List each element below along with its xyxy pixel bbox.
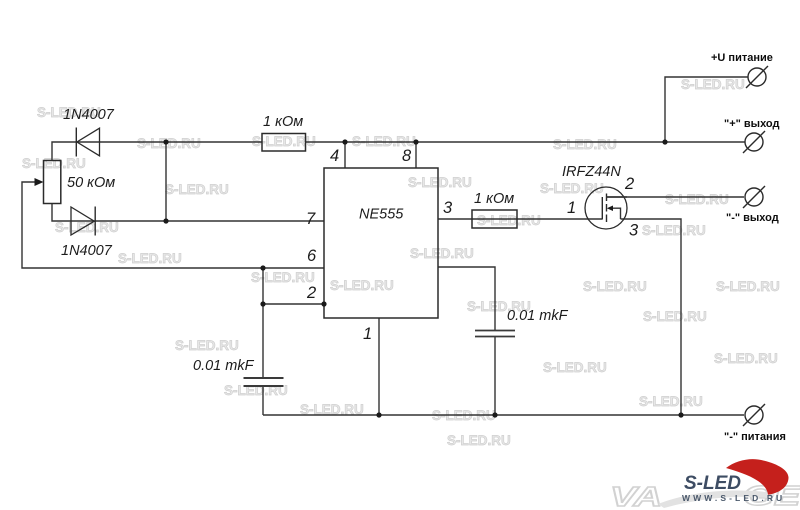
svg-text:50 кОм: 50 кОм — [67, 175, 115, 191]
svg-text:S-LED.RU: S-LED.RU — [118, 251, 182, 266]
svg-text:S-LED.RU: S-LED.RU — [714, 351, 778, 366]
svg-text:3: 3 — [629, 222, 639, 240]
wire: pin 3 to gate of Q1 — [438, 218, 602, 220]
terminal +U supply — [746, 66, 768, 88]
svg-text:1: 1 — [363, 325, 372, 343]
big GE background watermark letters — [743, 481, 800, 510]
node dot pin4 — [342, 139, 347, 144]
logo red swoosh — [726, 459, 789, 495]
svg-text:S-LED.RU: S-LED.RU — [55, 220, 119, 235]
wire: C1 bottom lead — [262, 387, 264, 416]
wire: vertical link between diode branches at x=166 — [165, 142, 167, 221]
node dot pin2 left — [260, 301, 265, 306]
big VA background watermark letters — [610, 482, 662, 510]
wire: source of Q1 right and down to rail — [621, 219, 682, 415]
svg-text:S-LED.RU: S-LED.RU — [137, 136, 201, 151]
svg-text:S-LED.RU: S-LED.RU — [175, 338, 239, 353]
capacitor C1 0.01 mkF — [244, 378, 284, 386]
svg-text:1: 1 — [567, 199, 576, 217]
svg-text:1 кОм: 1 кОм — [263, 114, 303, 130]
svg-text:S-LED.RU: S-LED.RU — [165, 182, 229, 197]
svg-text:S-LED.RU: S-LED.RU — [642, 223, 706, 238]
wire: pin 5 over and down to C2 — [438, 267, 495, 330]
diode D2 1N4007 (bottom, pointing right) — [71, 207, 95, 236]
svg-text:VA: VA — [610, 482, 662, 510]
svg-text:6: 6 — [307, 247, 317, 265]
svg-text:3: 3 — [443, 199, 453, 217]
svg-text:"+" выход: "+" выход — [724, 118, 779, 130]
svg-text:"-" питания: "-" питания — [724, 431, 786, 443]
svg-text:4: 4 — [330, 147, 339, 165]
terminal "-" supply — [743, 404, 765, 426]
wire: bottom ground rail — [263, 414, 744, 416]
svg-text:8: 8 — [402, 147, 412, 165]
wire: drain of Q1 to "-" output terminal — [606, 196, 744, 198]
svg-text:S-LED.RU: S-LED.RU — [553, 137, 617, 152]
svg-text:1 кОм: 1 кОм — [474, 191, 514, 207]
svg-text:S-LED.RU: S-LED.RU — [716, 279, 780, 294]
terminal "-" output — [743, 186, 765, 208]
node dot pin6 — [260, 265, 265, 270]
wire: pot wiper arm going left and down to pin 6 row — [22, 182, 324, 268]
svg-text:2: 2 — [306, 284, 316, 302]
node dot bottom x=166 — [163, 218, 168, 223]
resistor R1 1k (top) — [262, 134, 306, 152]
node dot +U branch — [662, 139, 667, 144]
wire: pin 2 stub — [263, 303, 324, 305]
svg-text:1N4007: 1N4007 — [63, 107, 115, 123]
node dot rail C2 — [492, 412, 497, 417]
svg-text:S-LED.RU: S-LED.RU — [251, 270, 315, 285]
svg-text:7: 7 — [306, 210, 316, 228]
svg-text:NE555: NE555 — [359, 207, 404, 223]
svg-text:"-" выход: "-" выход — [726, 212, 779, 224]
svg-text:WWW.S-LED.RU: WWW.S-LED.RU — [682, 493, 785, 503]
terminal "+" output — [743, 131, 765, 153]
wire: top rail y=142 from pot corner to "+" output terminal — [52, 142, 262, 161]
node dot pin8 — [413, 139, 418, 144]
svg-text:S-LED.RU: S-LED.RU — [408, 175, 472, 190]
svg-text:1N4007: 1N4007 — [61, 243, 113, 259]
svg-text:S-LED.RU: S-LED.RU — [543, 360, 607, 375]
diode D1 1N4007 (top, pointing left) — [76, 128, 99, 157]
svg-text:+U питание: +U питание — [711, 52, 773, 64]
node dot pin2 at IC — [321, 301, 326, 306]
svg-text:S-LED.RU: S-LED.RU — [643, 309, 707, 324]
svg-text:S-LED.RU: S-LED.RU — [410, 246, 474, 261]
watermark tile S-LED.RU — [22, 77, 780, 448]
node dot top x=166 — [163, 139, 168, 144]
svg-text:S-LED.RU: S-LED.RU — [665, 192, 729, 207]
svg-text:S-LED.RU: S-LED.RU — [583, 279, 647, 294]
svg-text:S-LED.RU: S-LED.RU — [540, 181, 604, 196]
svg-text:IRFZ44N: IRFZ44N — [562, 164, 621, 180]
wire: pin 8 stub — [415, 142, 417, 168]
wire: pin 4 stub — [344, 142, 346, 168]
node dot rail source — [678, 412, 683, 417]
svg-text:S-LED.RU: S-LED.RU — [447, 433, 511, 448]
wire: bottom diode row / pin 7 into IC — [52, 204, 324, 222]
wire: pin 1 down to rail — [378, 318, 380, 415]
wire: vertical from pin6 node down to C1 — [262, 268, 264, 377]
wire: C2 bottom lead to rail — [494, 337, 496, 415]
IC U1 NE555 body — [324, 168, 438, 318]
potentiometer R 50k body — [35, 161, 61, 204]
wire: +U supply branch up from node at x=665 — [665, 77, 748, 142]
resistor R2 1k (gate) — [472, 210, 517, 228]
svg-text:2: 2 — [624, 175, 634, 193]
svg-text:S-LED.RU: S-LED.RU — [639, 394, 703, 409]
transistor Q1 IRFZ44N — [585, 187, 627, 229]
svg-text:0.01 mkF: 0.01 mkF — [193, 358, 255, 374]
svg-text:S-LED.RU: S-LED.RU — [22, 156, 86, 171]
capacitor C2 0.01 mkF — [475, 331, 515, 337]
svg-text:S-LED.RU: S-LED.RU — [681, 77, 745, 92]
node dot rail pin1 — [376, 412, 381, 417]
svg-text:S-LED.RU: S-LED.RU — [330, 278, 394, 293]
svg-text:S-LED: S-LED — [684, 473, 741, 494]
gray background swoosh band — [658, 490, 774, 508]
svg-text:0.01 mkF: 0.01 mkF — [507, 308, 569, 324]
svg-text:S-LED.RU: S-LED.RU — [477, 213, 541, 228]
